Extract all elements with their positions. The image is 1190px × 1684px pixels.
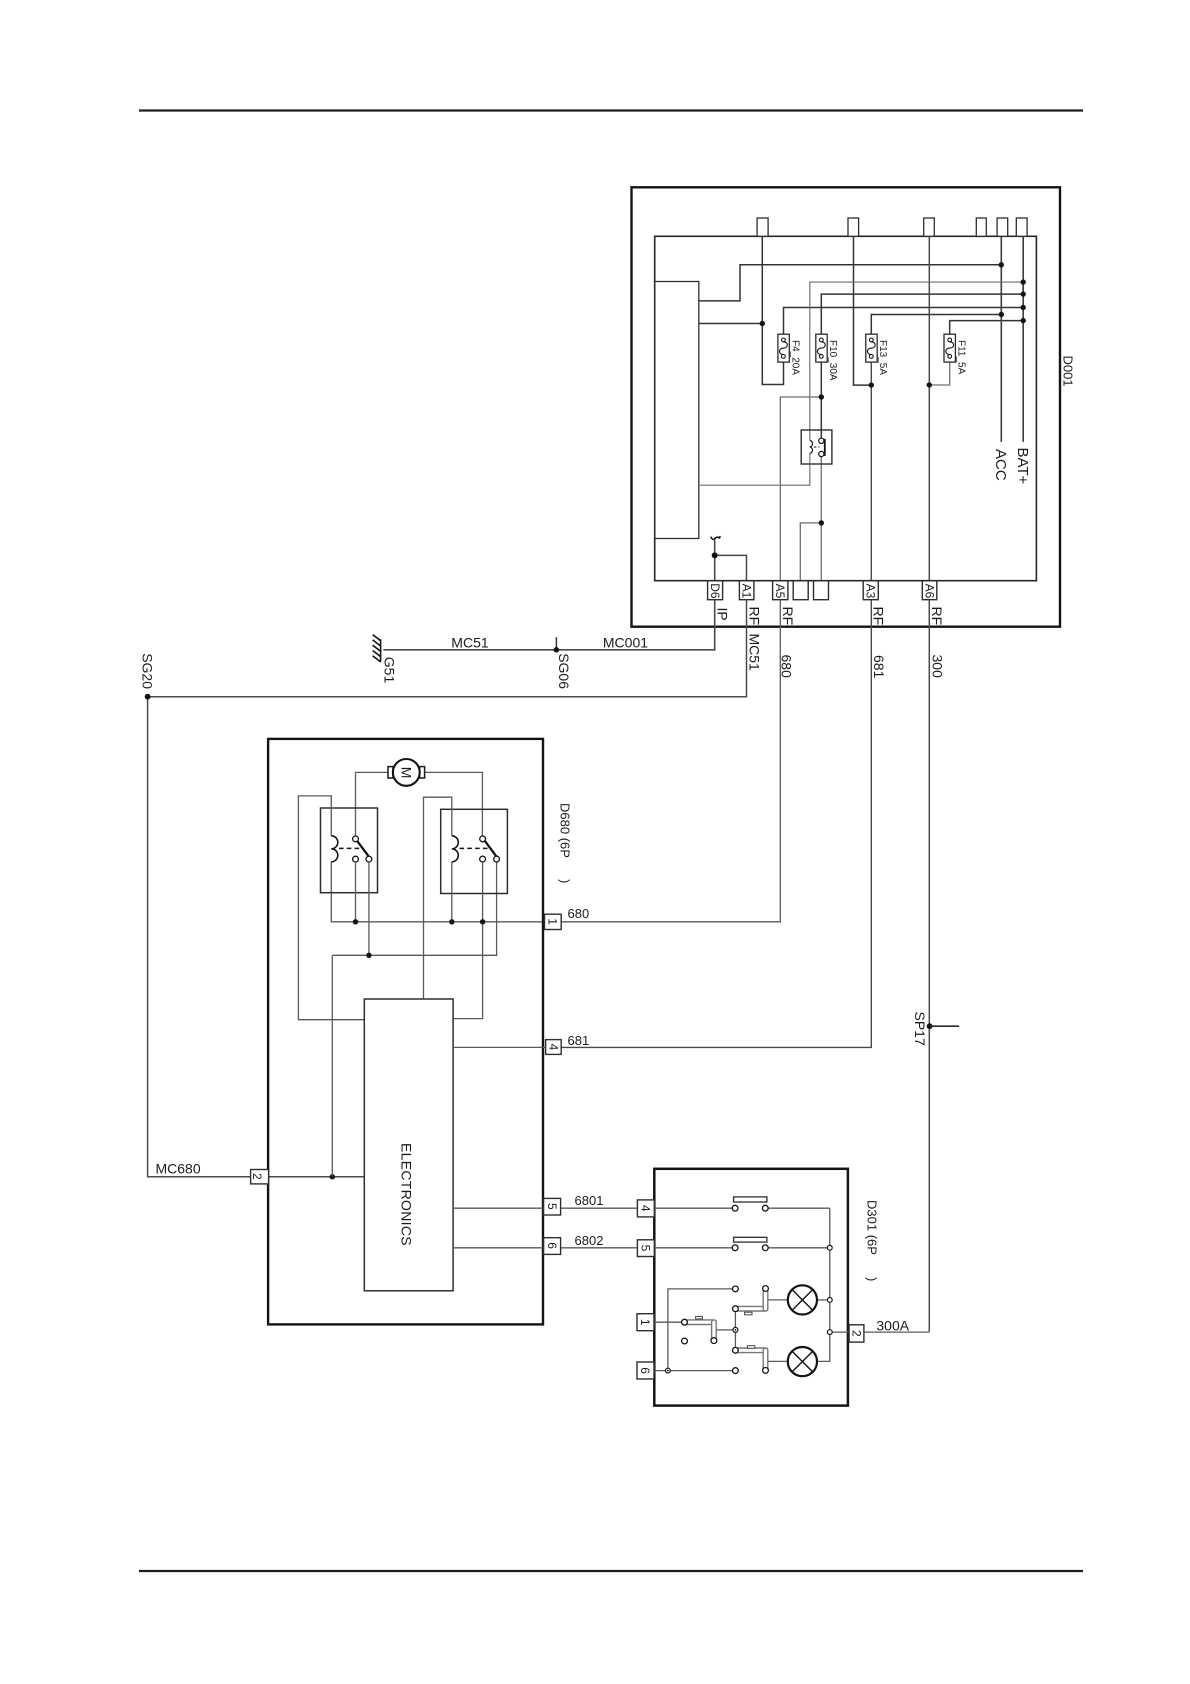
junction dot D6 column (760, 321, 765, 326)
svg-text:300A: 300A (876, 1318, 909, 1334)
wire: center junction to upper and lower levers (734, 1312, 736, 1348)
svg-text:RF: RF (746, 607, 762, 626)
relay K1 coil feed from ELECTRONICS (298, 796, 364, 1020)
open junction on bus at S2 (827, 1245, 832, 1250)
wire: fuse F11 top to BAT+ (950, 321, 1024, 338)
wire 681 from ELECTRONICS to pin 4 (453, 1046, 545, 1048)
svg-text:RF: RF (871, 607, 887, 626)
open junction center (733, 1327, 738, 1332)
svg-text:MC51: MC51 (451, 635, 489, 651)
junction dot K1 pivot on MC680 rail (366, 953, 371, 958)
D001 inner box (655, 236, 1037, 580)
lamp L2 (788, 1347, 817, 1376)
pin A3 box (863, 581, 878, 600)
relay K2 NC contact (480, 856, 486, 862)
wire: relay coil bottom return to tall box (699, 453, 810, 485)
pin A6 box (922, 581, 937, 600)
relay K2 pivot contact (494, 856, 500, 862)
svg-text:ELECTRONICS: ELECTRONICS (399, 1143, 415, 1246)
svg-text:ACC: ACC (992, 449, 1009, 481)
svg-text:6802: 6802 (575, 1233, 604, 1248)
wire: BAT+ branch to relay coil (810, 282, 1023, 440)
switch S2 contact left (732, 1245, 738, 1251)
device D301 outer box (654, 1169, 848, 1406)
junction dot K2 coil on 680 rail (449, 919, 454, 924)
svg-text:681: 681 (568, 1033, 590, 1048)
wire: fuse F10 bottom to relay contact (820, 358, 822, 438)
wire: relay contact bottom to spare pins (800, 457, 821, 581)
wire: fuse F4 top to BAT+ (784, 308, 1024, 339)
svg-text:A6: A6 (923, 584, 937, 599)
wire: stub1 column down to fuse F4 bottom (762, 236, 783, 384)
wire net MC001/IP: hook down through pin D6 to G51 rail (383, 540, 714, 650)
wire: lever1 output to center junction (717, 1329, 733, 1331)
relay K1 NC contact (353, 856, 359, 862)
wire: tall box to ACC feed (699, 265, 1002, 301)
node SP17 stub (930, 1025, 960, 1027)
wire: switch S2 to right bus (768, 1247, 830, 1249)
motor M wire right (424, 772, 482, 836)
svg-text:2: 2 (250, 1173, 264, 1180)
wire: K1 pivot down to MC680 rail (368, 862, 370, 955)
open junction on bus at L1 (827, 1298, 832, 1303)
page header rule (139, 109, 1083, 111)
lever B joint circle (733, 1306, 739, 1312)
relay K2 blade (484, 840, 496, 856)
junction dot ACC upper (999, 262, 1004, 267)
wire net 300: stub3 through pin A6 down to D301 pin 2 level (928, 236, 930, 1332)
switch S1 contact right (762, 1205, 768, 1211)
svg-text:): ) (558, 879, 573, 883)
pin 2 box D680 (251, 1170, 269, 1184)
D001 inner tall rectangle (655, 282, 699, 539)
lever C joint circle (733, 1347, 739, 1353)
svg-text:4: 4 (547, 1044, 561, 1051)
lever A bottom cap circle (711, 1338, 717, 1344)
wire net SG20/MC51/MC680: pin A1 down, across, down left edge to D680 pin 2 (148, 600, 747, 1177)
relay U1 inside D001 (801, 430, 832, 464)
relay K1 common contact (353, 836, 359, 842)
pin 5 box D301 (637, 1240, 654, 1257)
svg-text:F13_5A: F13_5A (877, 340, 888, 375)
svg-text:): ) (865, 1277, 880, 1281)
wire 6802 from ELECTRONICS through pin 6 to D301 pin 5 (453, 1247, 637, 1249)
svg-text:IP: IP (715, 608, 731, 621)
junction dot BAT+ 2 (1021, 291, 1026, 296)
svg-text:MC680: MC680 (156, 1161, 201, 1177)
open junction pin 6 branch (666, 1368, 671, 1373)
wire: F10 bottom branch to pin A5 (780, 397, 821, 581)
svg-text:680: 680 (568, 906, 590, 921)
wire: lamp L1 to right bus (817, 1299, 830, 1301)
spare pin box 1 (793, 581, 808, 600)
motor M (388, 759, 425, 786)
svg-text:1: 1 (546, 918, 560, 925)
relay K1 box in D680 (321, 808, 378, 893)
svg-text:G51: G51 (382, 657, 398, 684)
svg-text:F10_30A: F10_30A (827, 340, 838, 381)
ELECTRONICS box (364, 999, 453, 1291)
lever C bottom cap circle (763, 1368, 769, 1374)
junction dot F13 bottom (869, 382, 874, 387)
wire: right bus down to lamp L2 (817, 1208, 830, 1361)
wire: pin 6 net to both stationary contacts (654, 1289, 732, 1371)
pin 2 box D301 (849, 1325, 864, 1342)
lever A contact circle (682, 1319, 688, 1325)
node SG06 dot (554, 647, 560, 653)
wire net 300A: right bus through pin 2 to 300 column (830, 1331, 930, 1333)
relay K2 dashed actuator (460, 847, 489, 849)
wire branch to pin A1 (715, 555, 747, 580)
switch S1 contact left (732, 1205, 738, 1211)
connector D001 outer box (632, 187, 1061, 626)
wire: fuse F10 top to BAT+ (821, 294, 1023, 338)
wire net 681: F13 bottom through pin A3 down to D680 pin 4 (546, 358, 872, 1047)
wire 6801 from ELECTRONICS through pin 5 to D301 pin 4 (453, 1207, 637, 1209)
svg-text:BAT+: BAT+ (1014, 448, 1031, 485)
svg-text:4: 4 (638, 1205, 652, 1212)
pin 6 box D680 (544, 1238, 561, 1255)
pin 4 box D301 (637, 1200, 654, 1217)
wire BAT+ line (1022, 236, 1024, 442)
fuse F10_30A (816, 334, 838, 381)
junction dot BAT+ 1 (1021, 279, 1026, 284)
junction dot K1 NC on 680 rail (353, 919, 358, 924)
D001 top stub pin 3 (924, 218, 935, 236)
junction dot ACC lower (999, 312, 1004, 317)
svg-text:681: 681 (871, 655, 887, 679)
wire ACC line (1000, 236, 1002, 442)
svg-text:RF: RF (929, 607, 945, 626)
node SP17 dot (927, 1023, 933, 1029)
node SG20 dot (145, 694, 151, 700)
fuse F11_5A (944, 334, 966, 374)
relay K2 common contact (480, 836, 486, 842)
svg-text:D001: D001 (1061, 356, 1076, 387)
wire: K1 NC contact to 680 rail (355, 862, 357, 922)
svg-text:D301 (6P: D301 (6P (865, 1200, 880, 1255)
unused contact circle (682, 1338, 688, 1344)
D001 top stub pin 6 (1016, 218, 1027, 236)
spare pin box 2 (814, 581, 829, 600)
lever A (pin1) rod (686, 1316, 714, 1340)
stationary contact bottom (733, 1368, 739, 1374)
svg-text:F11_5A: F11_5A (955, 340, 966, 375)
fuse F13_5A (866, 334, 888, 375)
svg-text:300: 300 (929, 655, 945, 679)
node SG06 tick (555, 637, 557, 650)
svg-text:RF: RF (780, 607, 796, 626)
relay K2 box in D680 (441, 809, 508, 893)
junction dot F10 bottom (819, 394, 824, 399)
stationary contact top (733, 1286, 739, 1292)
junction dot D6 branch (712, 552, 718, 558)
junction dot BAT+ 4 (1021, 318, 1026, 323)
switch S2 contact right (762, 1245, 768, 1251)
junction dot K2 NC on 680 rail (480, 919, 485, 924)
svg-text:6: 6 (545, 1242, 559, 1249)
lamp L1 (788, 1285, 817, 1314)
wire: lever B to lamp L1 (769, 1299, 788, 1301)
svg-text:SP17: SP17 (912, 1012, 928, 1046)
svg-text:A5: A5 (773, 584, 787, 599)
device D680 outer box (268, 739, 543, 1325)
switch S2 bar (734, 1237, 767, 1242)
pin 5 box D680 (544, 1198, 561, 1215)
D001 top stub pin 4 (976, 218, 986, 236)
pin 1 box D301 (637, 1314, 654, 1331)
lever B top cap circle (763, 1286, 769, 1292)
motor M wire left (356, 772, 389, 836)
relay K1 coil (331, 836, 338, 862)
wire: pin 1 to lever contact (654, 1321, 682, 1323)
junction dot BAT+ 3 (1021, 305, 1026, 310)
wire: lever C to lamp L2 (769, 1360, 788, 1362)
wire: fuse F13 top to ACC (871, 315, 1001, 339)
junction dot relay to spare pins (819, 520, 824, 525)
D001 top stub pin 1 (757, 218, 768, 236)
wire MC680 rail inside D680 (332, 862, 496, 1177)
lever B (upper lamp) rod (738, 1289, 766, 1315)
lever C (lower lamp) rod (738, 1346, 766, 1370)
svg-text:D680 (6P: D680 (6P (558, 803, 573, 858)
open junction on bus at pin 2 (827, 1330, 832, 1335)
svg-text:5: 5 (638, 1245, 652, 1252)
svg-text:5: 5 (545, 1203, 559, 1210)
D001 top stub pin 5 (997, 218, 1008, 236)
relay K2 coil feed from ELECTRONICS top (424, 797, 452, 999)
relay K1 dashed actuator (339, 847, 362, 849)
pin 1 box D680 (545, 914, 562, 929)
wire: tall box to D6 feed column (699, 323, 763, 325)
svg-text:SG06: SG06 (556, 653, 572, 689)
svg-text:MC001: MC001 (603, 635, 648, 651)
switch S1 bar (734, 1197, 767, 1202)
D001 top stub pin 2 (848, 218, 859, 236)
relay K2 coil (452, 836, 459, 862)
pin 6 box D301 (637, 1362, 654, 1379)
wire: K2 NC contact down to ELECTRONICS right edge (453, 862, 483, 1019)
wire: fuse F11 bottom to A6 column (929, 358, 949, 385)
relay K2 coil bottom to 680 rail (451, 862, 453, 922)
relay K1 blade (357, 840, 369, 856)
pin A1 box (739, 581, 754, 600)
junction dot F11 bottom on A6 column (927, 382, 932, 387)
svg-text:MC51: MC51 (747, 634, 763, 672)
svg-text:SG20: SG20 (140, 653, 156, 689)
svg-text:6801: 6801 (575, 1193, 604, 1208)
wire: pin 4 to switch S1 (654, 1207, 732, 1209)
svg-text:D6: D6 (708, 583, 722, 599)
pin D6 box (708, 581, 723, 600)
svg-text:6: 6 (638, 1367, 652, 1374)
svg-text:A1: A1 (740, 584, 754, 599)
fuse F4_20A (778, 334, 800, 375)
ground G51 (373, 635, 381, 662)
page footer rule (139, 1570, 1083, 1572)
junction dot MC680 riser (330, 1174, 335, 1179)
svg-text:A3: A3 (864, 584, 878, 599)
svg-text:1: 1 (638, 1319, 652, 1326)
wire net 680: pin A5 down to D680 pin 1 and relay common rail (331, 600, 780, 922)
pin 4 box D680 (546, 1040, 562, 1055)
wire hook symbol on D6 feed (711, 536, 720, 539)
wire: switch S1 to right bus (768, 1207, 830, 1209)
svg-text:M: M (399, 767, 415, 779)
svg-text:F4_20A: F4_20A (789, 340, 800, 375)
wire: pin 5 to switch S2 (654, 1247, 732, 1249)
wire: stub2 column to F13 bottom (854, 236, 872, 385)
relay K1 pivot contact (366, 856, 372, 862)
svg-text:2: 2 (849, 1330, 863, 1337)
pin A5 box (773, 581, 788, 600)
